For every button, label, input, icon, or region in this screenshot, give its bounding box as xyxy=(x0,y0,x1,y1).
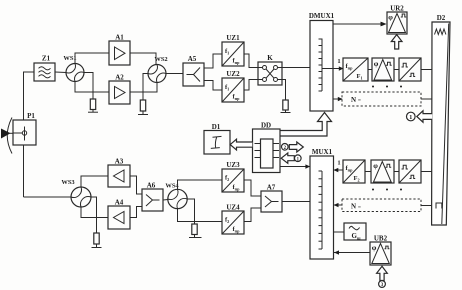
power combiner A6 xyxy=(142,182,163,212)
antenna W1 xyxy=(1,118,13,154)
svg-text:DD: DD xyxy=(261,122,271,130)
channel N dashed block (top) xyxy=(342,92,421,106)
svg-text:φ: φ xyxy=(388,13,393,22)
wire DD to MUX1 xyxy=(280,164,310,168)
wire modulator to shaper xyxy=(394,171,399,173)
svg-text:1: 1 xyxy=(337,160,340,167)
digital processor DD xyxy=(253,122,281,173)
wire WS3 to A4 xyxy=(81,207,108,218)
svg-text:Z1: Z1 xyxy=(42,55,51,63)
node 2 circled with out arrow xyxy=(282,142,304,152)
wire shaper to D2 (bottom) xyxy=(421,171,432,173)
svg-text:φ: φ xyxy=(372,243,377,252)
svg-text:φ: φ xyxy=(374,59,379,68)
power divider A5 xyxy=(183,55,204,86)
wire UZ3 to A7 xyxy=(244,180,261,196)
wire DMUX1 to channel N xyxy=(333,97,343,101)
filter Z1 xyxy=(34,55,55,82)
detector U1 (phi) xyxy=(372,58,394,81)
svg-text:P1: P1 xyxy=(27,112,35,120)
ellipsis dots bottom channel bank xyxy=(372,189,402,191)
indicator D2 xyxy=(432,14,450,225)
svg-text:1: 1 xyxy=(409,114,412,121)
wire K lower port to load xyxy=(282,80,286,101)
wire DMUX1 to UR2 xyxy=(333,23,384,25)
svg-text:WS3: WS3 xyxy=(61,179,75,186)
wire F2 to modulator xyxy=(365,171,371,173)
wire UB2 to MUX1 xyxy=(334,250,370,254)
svg-text:WS2: WS2 xyxy=(154,56,167,63)
wire channel N into MUX1 xyxy=(334,203,342,207)
svg-text:UZ3: UZ3 xyxy=(226,161,240,169)
terminating load WS3 xyxy=(94,233,99,247)
terminating load WS1 xyxy=(90,99,95,112)
node 1 circled xyxy=(407,112,416,121)
wire WS3 to A3 xyxy=(81,176,108,187)
wire A7 to MUX1 xyxy=(282,201,310,203)
oscilloscope D1 xyxy=(204,123,230,154)
hybrid coupler WS1 xyxy=(63,55,84,82)
terminating load K xyxy=(283,100,288,112)
wire WS3 right port to load xyxy=(91,197,97,233)
ground WS2 load xyxy=(138,114,148,116)
hollow arrow D2 to node 1 xyxy=(417,111,432,122)
svg-text:A6: A6 xyxy=(147,182,156,190)
video amplifier UB2 xyxy=(370,235,391,266)
ellipsis dots top channel bank xyxy=(372,86,402,88)
amplifier A3 xyxy=(108,158,130,188)
wire channel N to D2 xyxy=(421,98,432,100)
svg-text:UZ2: UZ2 xyxy=(226,70,240,78)
channel N dashed block (bottom) xyxy=(342,199,421,212)
ground K load xyxy=(281,112,291,114)
hollow arrow node 3 into UB2 xyxy=(377,266,388,280)
hybrid coupler WS4 xyxy=(165,183,187,209)
amplifier A1 xyxy=(109,34,130,66)
svg-text:UB2: UB2 xyxy=(374,235,388,243)
svg-text:A5: A5 xyxy=(188,55,197,63)
svg-text:UZ4: UZ4 xyxy=(226,204,240,212)
svg-text:N =: N = xyxy=(351,96,361,104)
mixer UZ1 xyxy=(222,34,244,66)
switch K xyxy=(258,54,282,85)
wire shaper to D2 xyxy=(421,69,432,71)
svg-text:1: 1 xyxy=(337,58,340,65)
mixer UZ2 xyxy=(222,70,244,102)
wire WS2 left port to load xyxy=(143,74,148,101)
hollow bus DD to DMUX1 input arrow xyxy=(280,113,332,137)
terminating load WS4 xyxy=(192,224,197,237)
node 1 circled with in arrow to DD xyxy=(281,153,301,163)
svg-text:D1: D1 xyxy=(212,123,221,131)
wire channel 1 into MUX1 xyxy=(333,168,343,172)
node 3 circled xyxy=(379,281,386,289)
svg-text:A1: A1 xyxy=(115,34,124,42)
hollow arrow into UR2 xyxy=(391,35,402,49)
wire A5 to UZ2 xyxy=(204,81,223,91)
svg-text:A2: A2 xyxy=(115,74,124,82)
pulse shaper U4 xyxy=(399,160,421,183)
svg-text:UZ1: UZ1 xyxy=(226,34,240,42)
wire WS1 to A2 xyxy=(75,82,109,93)
ground WS4 load xyxy=(189,237,202,239)
wire UZ2 to K xyxy=(244,80,258,91)
wire D2 to channel N (bottom) xyxy=(421,205,432,207)
wire DMUX1 channel 1 out xyxy=(322,66,344,70)
hollow arrow DD to D1 xyxy=(230,139,252,150)
svg-text:UR2: UR2 xyxy=(390,5,404,13)
wire A2 to WS2 xyxy=(130,83,157,92)
wire UZ4 to A7 xyxy=(244,208,261,222)
wire UZ1 to K xyxy=(244,54,258,68)
mixer UZ4 xyxy=(222,204,244,235)
svg-text:φ: φ xyxy=(373,161,378,170)
wire A5 to UZ1 xyxy=(204,54,223,68)
hybrid coupler WS3 xyxy=(61,179,91,207)
power combiner A7 xyxy=(261,184,282,213)
wire Z1 to WS1 xyxy=(55,71,66,74)
svg-text:A4: A4 xyxy=(115,199,124,207)
pulse shaper U2 xyxy=(399,58,421,81)
terminating load WS2 xyxy=(140,100,145,114)
svg-text:MUX1: MUX1 xyxy=(312,148,333,156)
wire bus antenna trunk xyxy=(24,72,72,197)
mixer UZ3 xyxy=(222,161,244,192)
wire detector to shaper xyxy=(394,69,399,71)
multiplexer MUX1 xyxy=(310,148,334,259)
rotary joint P1 xyxy=(13,112,36,145)
amplifier A2 xyxy=(109,74,130,105)
wire WS2 to A5 xyxy=(166,73,183,75)
wire MUX1 to noise generator xyxy=(334,231,345,233)
ground WS1 load xyxy=(88,111,98,113)
wire WS1 right port to load xyxy=(84,73,93,100)
svg-text:A3: A3 xyxy=(115,158,124,166)
svg-text:D2: D2 xyxy=(437,14,446,22)
svg-text:A7: A7 xyxy=(267,184,276,192)
svg-text:DMUX1: DMUX1 xyxy=(309,12,335,20)
amplifier A4 xyxy=(108,199,130,230)
IF filter F2 xyxy=(343,160,365,183)
wire K to DMUX1 xyxy=(282,67,310,69)
wire WS4 to UZ3 xyxy=(178,180,223,189)
demultiplexer DMUX1 xyxy=(309,12,335,111)
hybrid coupler WS2 xyxy=(148,56,168,83)
IF filter F1 xyxy=(343,58,368,81)
svg-text:N =: N = xyxy=(351,203,361,211)
wire WS1 to A1 xyxy=(75,53,109,64)
wire A6 to WS4 xyxy=(163,199,168,202)
ground WS3 load xyxy=(92,247,102,249)
noise generator G xyxy=(344,223,366,240)
wire A1 to WS2 xyxy=(130,53,156,65)
modulator U3 (phi) xyxy=(371,160,394,183)
wire A4 to A6 xyxy=(130,207,142,218)
wire WS4 right port to load xyxy=(187,199,194,224)
video amplifier UR2 xyxy=(387,5,407,35)
wire F1 to detector xyxy=(368,69,372,71)
wire A3 to A6 xyxy=(130,176,142,194)
wire WS4 to UZ4 xyxy=(178,209,223,222)
svg-text:K: K xyxy=(267,54,273,62)
